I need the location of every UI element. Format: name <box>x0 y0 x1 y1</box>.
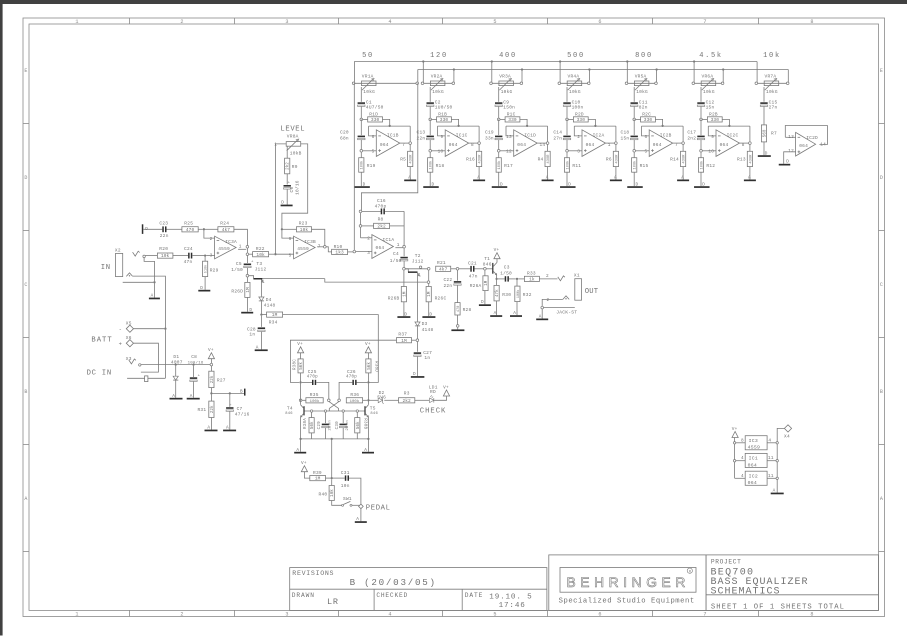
svg-text:E: E <box>24 68 27 74</box>
wire <box>357 381 368 383</box>
wire IC3A output stub <box>238 248 246 250</box>
wire band 6 below C12 <box>700 107 702 120</box>
svg-text:2: 2 <box>210 237 213 242</box>
capacitor C17 2n2 <box>697 136 704 138</box>
ground D (R15) <box>627 186 643 188</box>
svg-text:C24: C24 <box>184 246 193 252</box>
svg-text:10k: 10k <box>256 252 265 258</box>
wire X2 sleeve <box>123 281 154 283</box>
svg-text:IC2: IC2 <box>749 473 758 479</box>
svg-text:1: 1 <box>75 19 78 25</box>
svg-text:J112: J112 <box>412 259 424 265</box>
svg-text:D: D <box>249 308 252 313</box>
wire R22 to junction <box>269 253 275 255</box>
wire pedal stub to ground <box>360 509 362 522</box>
wire IC2 gnd stub <box>767 477 776 479</box>
wire IC2B feedback right <box>682 126 684 142</box>
svg-text:R38D: R38D <box>373 361 377 372</box>
page edge top <box>0 0 907 4</box>
wire band 6 mid <box>700 119 702 135</box>
junction node F <box>516 278 518 280</box>
wire band 1 pot-left to upper bus <box>353 62 355 84</box>
border tick right <box>879 444 885 446</box>
wire <box>405 269 408 272</box>
wire R4 to ground <box>547 167 549 180</box>
border tick left <box>23 123 29 125</box>
svg-text:A: A <box>477 176 480 181</box>
junction <box>728 125 730 127</box>
border tick top <box>338 18 340 24</box>
svg-text:A: A <box>539 314 542 319</box>
wire R27 to junction <box>210 388 212 394</box>
svg-text:064: 064 <box>799 143 808 149</box>
ground D (R29) <box>198 290 210 292</box>
wire IC3A output down <box>246 248 248 253</box>
wire R28 down <box>457 315 459 325</box>
svg-text:22k: 22k <box>210 375 215 383</box>
node band 3 pot right terminal <box>520 82 523 85</box>
svg-text:R19: R19 <box>367 163 376 169</box>
resistor R26A 1M <box>484 270 486 276</box>
svg-text:10kG: 10kG <box>766 89 778 95</box>
wire band 2 wiper down <box>429 87 431 102</box>
capacitor C1 4U7/50 <box>358 102 365 104</box>
wire upper bus left drop to IC1A +input <box>353 83 355 250</box>
wire band 3 wiper down <box>498 87 500 102</box>
svg-text:D: D <box>636 182 639 187</box>
svg-text:C5: C5 <box>236 261 242 267</box>
resistor R29 510k <box>204 257 206 261</box>
svg-text:100k: 100k <box>429 160 434 169</box>
wire <box>438 126 446 136</box>
svg-text:2: 2 <box>547 298 550 303</box>
wire R3 to LD1 <box>415 399 429 401</box>
svg-text:JACK-ST: JACK-ST <box>556 309 577 315</box>
wire R6 to ground <box>615 167 617 180</box>
svg-text:C: C <box>24 282 27 288</box>
wire <box>412 339 417 341</box>
svg-text:+: + <box>198 374 201 378</box>
svg-text:A: A <box>226 426 229 431</box>
node band 5 wiper/cap junction <box>633 118 636 121</box>
wire R38A down <box>311 433 313 439</box>
svg-text:1n: 1n <box>249 331 255 337</box>
ground A (D1) <box>170 398 183 400</box>
wire R13 to ground <box>749 167 751 180</box>
svg-text:R26B: R26B <box>388 296 400 302</box>
V+ supply (LD1) <box>443 390 449 396</box>
svg-text:400: 400 <box>499 52 517 60</box>
wire R5 to ground <box>409 167 411 180</box>
svg-text:56k: 56k <box>367 362 372 370</box>
svg-text:C14: C14 <box>553 129 562 135</box>
wire IC1D feedback right <box>547 126 549 142</box>
node IC2C output <box>749 142 752 145</box>
node IC3A output <box>246 246 249 249</box>
node A (C4 out) <box>403 268 406 271</box>
svg-text:4559: 4559 <box>297 246 309 252</box>
ground D (C27) <box>411 376 425 378</box>
junction <box>693 60 695 62</box>
svg-text:IC3: IC3 <box>749 438 758 444</box>
svg-text:1M: 1M <box>401 338 407 344</box>
ground A (R5) <box>404 180 416 182</box>
svg-text:15n: 15n <box>621 135 630 141</box>
border tick bottom <box>442 610 444 616</box>
svg-text:LEVEL: LEVEL <box>280 125 305 133</box>
wire C8 to ground <box>193 382 195 398</box>
svg-text:OUT: OUT <box>585 288 599 296</box>
title block revisions box <box>290 568 547 611</box>
wire <box>363 399 368 401</box>
node band 1 +input <box>360 150 363 153</box>
wire IC2B output stub <box>673 142 683 144</box>
border tick left <box>23 444 29 446</box>
svg-text:C8: C8 <box>191 354 197 360</box>
svg-text:D: D <box>200 286 203 291</box>
wire IC2C +input stub <box>701 150 716 152</box>
ground D (R26B) <box>397 316 410 318</box>
svg-text:064: 064 <box>376 245 385 251</box>
svg-text:C27: C27 <box>423 350 432 356</box>
ground A (R31) <box>205 430 218 432</box>
svg-text:V+: V+ <box>301 461 307 466</box>
wire IC2B +input stub <box>634 150 649 152</box>
svg-text:10k: 10k <box>330 489 335 497</box>
wire <box>134 343 159 372</box>
capacitor C6 10/16 <box>284 185 291 187</box>
wire V+ node down to R27 <box>210 366 212 371</box>
wire C30 down <box>342 428 344 439</box>
svg-text:C1: C1 <box>366 99 372 105</box>
resistor R13 430R <box>747 151 752 166</box>
svg-text:R30: R30 <box>502 292 511 298</box>
svg-text:100k: 100k <box>516 290 521 299</box>
ground D (R17) <box>492 186 508 188</box>
svg-text:1M: 1M <box>315 476 321 482</box>
wire <box>362 225 374 227</box>
border tick bottom <box>234 610 236 616</box>
svg-text:IC2A: IC2A <box>593 132 605 138</box>
wire R29 to ground <box>204 277 206 290</box>
node R37/D3/C27 <box>416 339 419 342</box>
svg-text:C4: C4 <box>393 251 399 257</box>
capacitor C29 220n <box>325 412 327 423</box>
wire IC2 V+ stub <box>735 477 746 479</box>
svg-text:6: 6 <box>598 19 601 25</box>
wire band 7 pot row <box>756 82 788 84</box>
resistor R32 100k <box>516 279 518 286</box>
wire IC2A feedback top <box>574 125 616 127</box>
jack X2 tip contact <box>133 251 140 256</box>
svg-text:C31: C31 <box>341 470 350 476</box>
svg-text:470p: 470p <box>307 376 318 380</box>
wire T5 collector up <box>367 384 369 405</box>
wire IC1C +input stub <box>430 150 445 152</box>
wire band 5 pot-right to lower bus <box>656 70 658 84</box>
wire IC1C feedback right <box>478 126 480 142</box>
junction D4/R34/C28 <box>260 313 262 315</box>
svg-text:R24: R24 <box>220 221 229 227</box>
ground A (C28) <box>255 349 268 351</box>
svg-text:10kG: 10kG <box>501 89 513 95</box>
wire <box>283 315 379 383</box>
svg-text:4: 4 <box>388 612 391 618</box>
svg-text:2: 2 <box>180 19 183 25</box>
wire R14 to ground <box>682 167 684 180</box>
svg-text:R23: R23 <box>299 221 308 227</box>
wire emitter rail <box>301 438 369 440</box>
svg-text:C18: C18 <box>621 129 630 135</box>
node band 4 +input <box>566 150 569 153</box>
border tick bottom <box>547 610 549 616</box>
svg-text:C7: C7 <box>237 406 243 412</box>
svg-text:100n: 100n <box>572 105 584 111</box>
svg-text:C17: C17 <box>687 129 696 135</box>
border tick top <box>547 18 549 24</box>
wire band 3 below C9 <box>498 107 500 120</box>
wire <box>655 119 662 126</box>
V+ supply (power rail) <box>210 359 212 364</box>
svg-text:15n: 15n <box>706 105 715 111</box>
ground A (T5) <box>362 452 374 454</box>
svg-text:A: A <box>513 311 516 316</box>
wire <box>642 126 650 136</box>
wire band 2 mid <box>429 119 431 135</box>
svg-text:IN: IN <box>101 264 111 272</box>
wire band 3 pot-right to lower bus <box>521 70 523 84</box>
wire R33 to jack tip <box>539 278 557 280</box>
svg-text:68n: 68n <box>340 135 349 141</box>
wire <box>349 478 361 504</box>
svg-text:A: A <box>880 496 883 502</box>
svg-text:430R: 430R <box>410 154 414 164</box>
svg-text:A: A <box>356 517 359 522</box>
wire cross drop right <box>338 408 340 411</box>
capacitor C13 22n <box>427 136 434 138</box>
wire sleeve to ground <box>154 283 156 297</box>
wire IC1A -input stub <box>361 237 372 239</box>
svg-text:R31: R31 <box>197 407 206 413</box>
wire rail right to ground <box>367 439 369 452</box>
svg-text:VR8A: VR8A <box>287 134 299 140</box>
svg-text:D: D <box>880 175 883 181</box>
svg-text:1U0/50: 1U0/50 <box>435 105 453 111</box>
junction R36 right <box>367 399 369 401</box>
node E <box>484 268 487 271</box>
svg-text:10kG: 10kG <box>569 89 581 95</box>
svg-text:50: 50 <box>362 52 374 60</box>
wire R9 to C6 <box>286 174 288 185</box>
node band 6 pot left terminal <box>692 82 695 85</box>
node band 7 pot right terminal <box>786 82 789 85</box>
wire bias to net B <box>213 392 245 394</box>
ground D (R26A) <box>479 304 491 306</box>
svg-text:3: 3 <box>285 19 288 25</box>
wire <box>283 228 297 230</box>
wire IC3 gnd stub <box>767 442 776 444</box>
wire <box>204 230 215 238</box>
svg-text:2: 2 <box>180 612 183 618</box>
svg-text:5: 5 <box>493 612 496 618</box>
wire T2 gate down <box>417 273 419 322</box>
svg-text:1k3: 1k3 <box>335 250 344 256</box>
project box <box>706 555 878 611</box>
node R26C top <box>427 281 430 284</box>
wire R32 to ground <box>516 302 518 316</box>
resistor R27 22k <box>209 371 214 387</box>
svg-text:100k: 100k <box>350 399 360 404</box>
svg-text:470: 470 <box>186 227 195 233</box>
svg-text:C2: C2 <box>435 99 441 105</box>
node T3 source <box>246 274 249 277</box>
node band 1 wiper/cap junction <box>360 118 363 121</box>
border tick right <box>879 123 885 125</box>
svg-text:B: B <box>24 389 27 395</box>
svg-text:A: A <box>494 311 497 316</box>
wire C29 down <box>325 428 327 439</box>
svg-text:T3: T3 <box>256 261 262 267</box>
svg-text:DC IN: DC IN <box>87 369 112 377</box>
wire C4 to node A <box>403 261 405 268</box>
junction IC1 gnd row <box>776 460 778 462</box>
ground A (PEDAL) <box>355 521 367 523</box>
svg-text:C16: C16 <box>377 198 386 204</box>
wire <box>574 126 582 136</box>
wire <box>316 382 329 399</box>
wire band 5 below C18 <box>633 140 635 158</box>
wire IC1B output down <box>409 144 411 151</box>
resistor R19 100k <box>359 158 364 173</box>
svg-text:27n: 27n <box>769 105 778 111</box>
junction IC3 gnd row <box>776 442 778 444</box>
net stub D (C23 input) <box>142 224 144 234</box>
junction <box>453 68 455 70</box>
svg-text:7: 7 <box>675 143 678 148</box>
wire R38D to collector node <box>367 373 369 383</box>
resistor R5 430R <box>408 151 413 166</box>
svg-text:SW1: SW1 <box>343 496 352 502</box>
svg-text:10: 10 <box>708 149 714 154</box>
wire node E to T1 base <box>486 268 492 270</box>
svg-text:4148: 4148 <box>422 327 434 333</box>
wire R17 to ground <box>498 172 500 186</box>
svg-text:R38A: R38A <box>304 418 308 429</box>
V+ supply (IC power) <box>732 432 738 438</box>
svg-text:B: B <box>240 390 243 395</box>
op-amp IC1D 064 <box>514 130 538 157</box>
border tick left <box>23 230 29 232</box>
wire <box>312 229 325 245</box>
border tick top <box>652 18 654 24</box>
node V+ takeoff <box>210 363 213 366</box>
svg-text:8: 8 <box>471 143 474 148</box>
node IC1B output <box>409 142 412 145</box>
wire R16 to ground <box>478 167 480 180</box>
wire band 1 pot row <box>354 82 418 84</box>
resistor R11 100k <box>564 158 569 173</box>
wire IC2A +input stub <box>567 150 582 152</box>
svg-text:DATE: DATE <box>465 592 483 599</box>
wire T4 emitter down <box>300 417 302 439</box>
svg-text:D4: D4 <box>266 297 272 303</box>
border tick bottom <box>338 610 340 616</box>
svg-text:C6: C6 <box>289 187 295 193</box>
wire <box>777 428 784 492</box>
svg-text:470: 470 <box>457 306 461 312</box>
svg-text:-: - <box>119 326 123 333</box>
wire <box>509 278 516 280</box>
svg-text:D: D <box>404 312 407 317</box>
wire band 3 below C19 <box>498 140 500 158</box>
svg-text:IC3A: IC3A <box>225 239 237 245</box>
svg-text:C10: C10 <box>572 99 581 105</box>
svg-text:1/50: 1/50 <box>231 267 243 273</box>
svg-text:6: 6 <box>598 612 601 618</box>
svg-text:A: A <box>24 496 27 502</box>
svg-text:A: A <box>681 176 684 181</box>
wire <box>249 276 254 279</box>
wire <box>192 255 204 257</box>
node band 6 +input <box>700 150 703 153</box>
svg-text:R37: R37 <box>398 331 407 337</box>
svg-text:22n: 22n <box>443 283 452 289</box>
wire IC1C output stub <box>469 142 479 144</box>
IC2 power box (064) <box>745 471 767 485</box>
svg-text:R4: R4 <box>538 156 544 162</box>
ground A (R32) <box>510 315 522 317</box>
ground D (R18) <box>423 186 439 188</box>
svg-text:IC1A: IC1A <box>383 237 395 243</box>
svg-text:120: 120 <box>430 52 448 60</box>
node band 4 pot left terminal <box>558 82 561 85</box>
wire <box>390 225 405 227</box>
svg-text:C23: C23 <box>159 221 168 227</box>
node band 3 wiper/cap junction <box>497 118 500 121</box>
behringer box <box>549 555 706 611</box>
svg-text:R33: R33 <box>527 271 536 277</box>
wire IC1B feedback right <box>409 126 411 142</box>
wire <box>385 210 404 212</box>
node band 3 +input <box>497 150 500 153</box>
resistor R12 100k <box>698 158 703 173</box>
wire IC2C output down <box>749 144 751 151</box>
border tick bottom <box>129 610 131 616</box>
node R8 left <box>359 225 362 228</box>
wire <box>369 126 377 136</box>
svg-text:CHECKED: CHECKED <box>376 592 408 599</box>
junction IC2 gnd row <box>776 477 778 479</box>
svg-text:6: 6 <box>289 237 292 242</box>
wire T3 gate down <box>260 280 262 297</box>
svg-text:846: 846 <box>285 412 293 416</box>
resistor R16 430R <box>477 151 482 166</box>
wire IC1C output down <box>478 144 480 151</box>
svg-text:V+: V+ <box>443 385 449 390</box>
svg-text:V+: V+ <box>365 342 371 347</box>
node C (R26C tap) <box>427 268 430 271</box>
node R35 left <box>299 399 302 402</box>
svg-text:3: 3 <box>577 149 580 154</box>
wire <box>708 126 716 136</box>
svg-text:430R: 430R <box>547 154 551 164</box>
svg-text:IC3B: IC3B <box>304 239 316 245</box>
node R28 bottom <box>456 325 459 328</box>
svg-text:DRAWN: DRAWN <box>292 592 315 599</box>
wire <box>143 228 162 230</box>
svg-text:IC1C: IC1C <box>456 132 468 138</box>
svg-text:1M: 1M <box>247 287 251 293</box>
